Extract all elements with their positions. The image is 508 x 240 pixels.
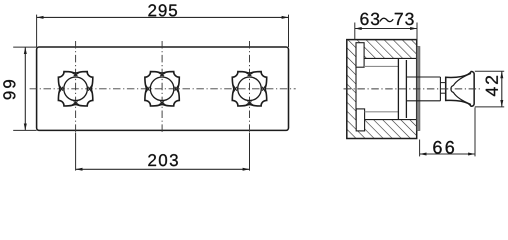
valve cartridge bottom edge — [365, 111, 399, 113]
wall block outline — [347, 40, 417, 139]
trim plate (front view) — [37, 47, 289, 130]
valve cartridge top edge — [364, 65, 398, 67]
dimension 203: value label — [148, 154, 178, 166]
knob 1 vertical centerline — [75, 41, 77, 134]
cavity bottom edge — [365, 119, 417, 121]
wall section hatching — [347, 40, 417, 139]
dimension 295: value label — [148, 4, 177, 16]
stem bottom line — [440, 92, 445, 94]
knob 3 (quatrefoil handle) — [232, 72, 266, 106]
dimension 66: dimension line with arrows — [420, 153, 475, 155]
dimension 63~73: dimension line with arrows — [355, 28, 417, 30]
knob 2 vertical centerline — [161, 41, 163, 134]
dimension 203: extension lines — [75, 133, 77, 171]
knob 2 (quatrefoil handle) — [145, 72, 179, 106]
sleeve bottom line — [406, 100, 440, 102]
knob inner cone profile — [451, 73, 471, 104]
dimension 295: dimension line with arrows — [37, 16, 289, 18]
knob hub face — [445, 77, 447, 100]
dimension 42: value label (rotated) — [486, 76, 498, 96]
cavity top edge — [364, 57, 417, 59]
dimension 295: extension lines — [36, 15, 38, 47]
dimension 99: dimension line with arrows — [24, 47, 26, 130]
knob 3 vertical centerline — [249, 41, 251, 134]
dimension 42: extension lines — [475, 70, 504, 72]
knob side profile — [446, 71, 474, 106]
dimension 63~73: value label — [380, 18, 393, 21]
horizontal centerline (front view) — [30, 88, 296, 90]
escutcheon plate (edge-on) — [417, 47, 420, 131]
cavity left wall — [355, 58, 357, 119]
dimension 66: extension lines — [419, 140, 421, 157]
knob 1 (quatrefoil handle) — [58, 72, 92, 106]
sleeve end face — [439, 77, 441, 101]
lower mounting nut — [356, 109, 364, 131]
dimension 99: value label (rotated) — [3, 80, 15, 99]
dimension 66: value label — [433, 141, 454, 154]
stem top line — [440, 82, 445, 84]
dimension 42: dimension line with arrows — [501, 71, 503, 107]
dimension 99: extension lines — [13, 46, 36, 48]
upper mounting nut — [356, 43, 364, 67]
sleeve top line — [406, 76, 440, 78]
side view centerline — [344, 88, 482, 90]
dimension 203: dimension line with arrows — [76, 168, 250, 170]
valve body front face — [405, 60, 407, 118]
dimension 63~73: extension lines — [354, 23, 356, 40]
valve body rear face — [397, 58, 399, 119]
